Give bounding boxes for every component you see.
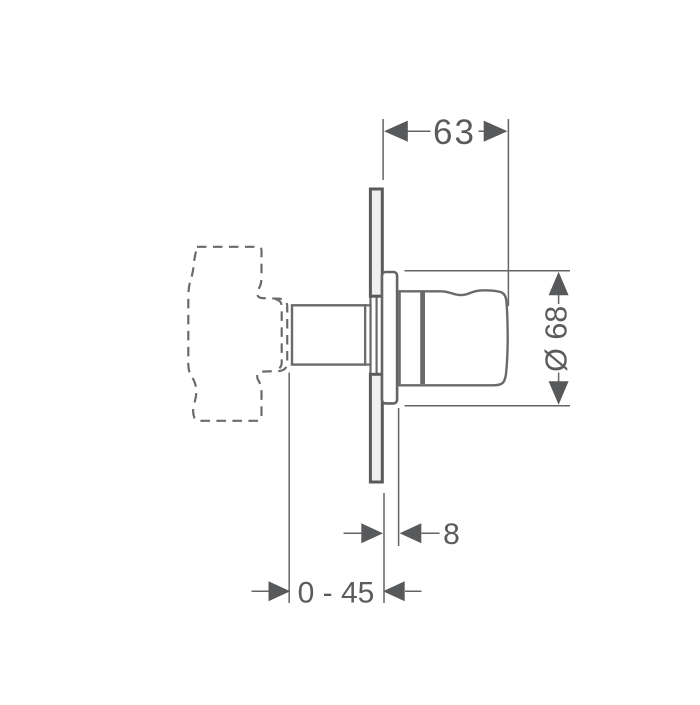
dashed inner spindle contour [275,299,282,370]
svg-text:Ø 68: Ø 68 [540,306,574,372]
wall plate upper segment [370,189,382,296]
wall plate lower segment [370,374,382,482]
dimension 8 : tails [344,532,363,534]
dimension 8 : extension lines [344,408,440,603]
handle body [400,290,508,385]
dimension Ø68 : extension lines [405,271,571,406]
spindle body [292,305,365,364]
handle collar bar [420,292,425,384]
svg-text:63: 63 [433,113,476,152]
dimension Ø68 : arrows [549,272,569,296]
dimension 0-45 : extension line left [252,373,422,604]
dashed handle outline (tile/handle zone) [188,247,287,421]
dimension Ø68 : stems [558,295,560,305]
dimension 0-45 : tails [252,590,269,592]
dimension 63 : arrows [384,121,408,142]
escutcheon flange [382,272,397,403]
dimension 8 : arrows [361,523,383,543]
dimension 63 : dim line tails [406,130,431,132]
dimension 0-45 : arrows [269,581,291,601]
cartridge ring inner [365,305,370,364]
cartridge ring outer [371,296,377,374]
svg-text:8: 8 [443,518,460,551]
dimension 63 : extension lines [383,119,508,306]
svg-text:0 - 45: 0 - 45 [298,577,375,610]
